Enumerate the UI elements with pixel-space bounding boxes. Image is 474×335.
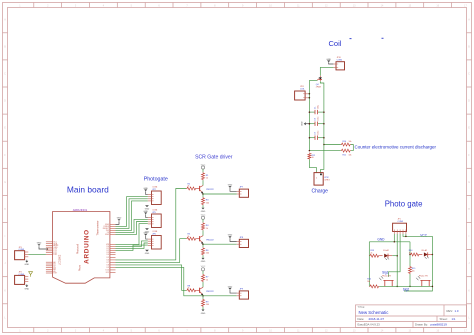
arduino right pin D11	[106, 272, 116, 274]
svg-text:1k: 1k	[409, 252, 411, 254]
arduino left pin D13	[46, 249, 57, 251]
wire gate	[309, 79, 317, 81]
svg-text:1/1: 1/1	[452, 317, 456, 321]
svg-text:C: C	[468, 73, 470, 76]
wire photogate 4	[116, 219, 148, 232]
svg-text:G: G	[468, 181, 470, 184]
svg-text:1k: 1k	[188, 236, 190, 238]
svg-text:100u: 100u	[317, 105, 319, 109]
svg-text:New Schematic: New Schematic	[359, 310, 390, 315]
svg-text:CHRG: CHRG	[324, 180, 330, 182]
ground (connector JP7)	[228, 185, 237, 192]
arduino right pin D4	[107, 254, 116, 256]
resistor R13 (led left)	[369, 250, 379, 257]
svg-text:Counter electromotive current: Counter electromotive current discharger	[355, 144, 437, 149]
node emitter junction	[202, 295, 204, 297]
wire emitter resistor to ground	[202, 255, 204, 258]
connector JP4 (left lower)	[15, 272, 29, 285]
wire vcc to collector resistor	[202, 219, 204, 222]
LED D1	[379, 249, 392, 260]
svg-text:Photo TR: Photo TR	[419, 275, 428, 278]
svg-text:Photo gate: Photo gate	[385, 199, 423, 208]
arduino left pin D11	[46, 252, 57, 254]
ground (capacitor ladder)	[302, 121, 311, 126]
arduino left pin A2	[46, 265, 56, 268]
ground (JP5 bottom)	[145, 228, 150, 233]
arduino right pin GND	[105, 234, 116, 236]
svg-text:CON5: CON5	[398, 221, 404, 223]
arduino left pin AREF	[46, 244, 59, 247]
phototransistor PT2	[416, 275, 430, 287]
wire discharge return	[309, 150, 340, 152]
resistor R1 (collector)	[202, 172, 210, 180]
resistor R14 (led right)	[409, 250, 420, 256]
resistor R10 (discharge)	[341, 141, 352, 146]
antenna symbol (JP4)	[29, 272, 33, 277]
svg-text:Date:: Date:	[358, 317, 365, 321]
svg-text:PN2222: PN2222	[206, 239, 214, 241]
connector JP7 (SCR output)	[237, 187, 249, 198]
wire pin4 vcc	[403, 234, 432, 255]
ground (JP2 top)	[143, 188, 148, 195]
svg-text:CON3: CON3	[19, 249, 25, 251]
connector JP10 (coil top)	[333, 57, 344, 70]
resistor R15 (mid pulldown)	[409, 266, 416, 274]
title block	[356, 305, 467, 328]
transistor Q3 PN2222	[196, 287, 214, 295]
svg-text:Drawn By:: Drawn By:	[415, 323, 428, 327]
ground (JP5 top)	[143, 211, 148, 218]
svg-text:H: H	[468, 208, 470, 211]
wire vcc to collector resistor	[202, 271, 204, 274]
svg-text:100: 100	[206, 253, 209, 255]
svg-text:PN2222: PN2222	[206, 291, 214, 293]
connector JP1 (photo gate header)	[393, 218, 407, 234]
wire collector resistor to transistor	[202, 180, 204, 185]
svg-text:D10: D10	[53, 254, 56, 256]
svg-text:10: 10	[312, 157, 314, 159]
svg-text:Photocell: Photocell	[77, 243, 80, 254]
node emitter junction	[202, 243, 204, 245]
svg-text:CON2: CON2	[337, 60, 343, 62]
svg-text:GND: GND	[302, 121, 304, 126]
resistor R3 (emitter)	[202, 197, 210, 205]
arduino right pin D7	[107, 262, 116, 264]
svg-text:Sheet:: Sheet:	[440, 317, 448, 321]
svg-text:Main board: Main board	[67, 185, 109, 195]
svg-text:Thermometer: Thermometer	[96, 220, 99, 235]
svg-text:ARDUINO: ARDUINO	[84, 229, 91, 264]
arduino left pin SCL	[46, 242, 57, 244]
wire vcc to collector resistor	[202, 169, 204, 172]
svg-text:10k: 10k	[349, 141, 352, 143]
svg-text:Photo TR: Photo TR	[382, 275, 391, 278]
svg-text:GND: GND	[117, 217, 122, 219]
svg-text:1.0: 1.0	[455, 309, 459, 313]
ground (stage 1 emitter)	[201, 208, 206, 213]
connector JP2 (photogate)	[148, 187, 161, 205]
svg-text:TITLE:: TITLE:	[358, 306, 366, 309]
resistor R12 (charge)	[308, 153, 315, 160]
vcc supply (stage 3)	[201, 266, 206, 271]
svg-text:GND: GND	[377, 237, 385, 241]
svg-text:H: H	[4, 208, 6, 211]
svg-text:GND: GND	[201, 313, 206, 315]
arduino left pin D12	[46, 251, 57, 253]
svg-text:Piezo: Piezo	[78, 264, 81, 271]
svg-text:1k: 1k	[206, 178, 208, 180]
svg-text:GND: GND	[105, 234, 110, 236]
svg-text:CON3: CON3	[19, 274, 25, 276]
connector JP6 (photogate)	[148, 231, 161, 249]
svg-text:GND: GND	[24, 264, 29, 266]
wire photogate 7	[116, 241, 148, 247]
resistor R16 (bottom left)	[367, 279, 379, 288]
wire emitter resistor to ground	[202, 307, 204, 310]
svg-text:D: D	[468, 100, 470, 103]
wire gnd top	[369, 241, 410, 243]
arduino right pin D9	[107, 267, 116, 269]
arduino left pin A5	[46, 270, 56, 273]
svg-text:EasyEDA V4.9.23: EasyEDA V4.9.23	[358, 323, 381, 327]
wire led left to pin2 net	[392, 255, 397, 257]
svg-text:LCD1602: LCD1602	[59, 254, 62, 265]
arduino right pin 3V3	[106, 230, 116, 232]
arduino left pin SDA	[46, 242, 58, 245]
svg-text:GND: GND	[201, 211, 206, 213]
wire photogate 3	[116, 201, 148, 231]
ground (coil top)	[326, 59, 333, 64]
svg-text:100u: 100u	[317, 131, 319, 135]
wire emitter node	[202, 243, 204, 247]
svg-text:C: C	[4, 73, 6, 76]
arduino left pin A3	[46, 266, 56, 269]
svg-text:1k: 1k	[371, 252, 373, 254]
wire mid rail lower	[409, 274, 411, 286]
svg-text:10k: 10k	[349, 155, 352, 157]
resistor R2 (base)	[186, 184, 196, 191]
ground (arduino right top)	[116, 217, 122, 224]
transistor Q2 PN2222	[196, 236, 214, 244]
svg-text:2018-11-07: 2018-11-07	[369, 317, 385, 321]
svg-text:VCC: VCC	[201, 164, 206, 166]
wire collector resistor to transistor	[202, 230, 204, 235]
connector JP9 (SCR output)	[237, 288, 249, 299]
svg-text:D: D	[4, 100, 6, 103]
svg-text:G: G	[4, 181, 6, 184]
vcc supply (stage 1)	[201, 164, 206, 169]
vcc supply (stage 2)	[201, 215, 206, 220]
svg-text:100: 100	[206, 304, 209, 306]
ground (JP3)	[24, 260, 29, 267]
svg-text:2P4M: 2P4M	[316, 87, 321, 89]
wire arduino to Q1 base	[116, 189, 187, 260]
net stub mark 1	[350, 37, 352, 40]
arduino left pin RST	[46, 273, 58, 275]
svg-text:ARDUINO1: ARDUINO1	[73, 208, 88, 212]
svg-text:1k: 1k	[188, 288, 190, 290]
ground (JP6 top)	[143, 232, 148, 239]
LED D2	[420, 249, 433, 259]
net stub mark 2	[382, 37, 384, 40]
arduino left pin A4	[46, 268, 56, 271]
ground (stage 3 emitter)	[201, 310, 206, 315]
node emitter junction	[202, 193, 204, 195]
arduino right pin RESET	[103, 228, 116, 230]
svg-text:D4: D4	[107, 254, 109, 256]
wire to charge connector right	[321, 145, 324, 173]
transistor Q1 PN2222	[196, 186, 214, 194]
wire photogate 2	[116, 199, 148, 229]
arduino left pin A1	[46, 263, 56, 266]
svg-text:VCC: VCC	[201, 215, 206, 217]
svg-text:GND: GND	[37, 242, 42, 244]
svg-text:Sig1: Sig1	[382, 270, 389, 274]
wire emitter node	[202, 295, 204, 299]
svg-text:IFL-A2: IFL-A2	[422, 249, 427, 252]
arduino right pin D8	[107, 265, 116, 267]
wire right rail down	[404, 255, 432, 292]
arduino right pin VIN	[106, 244, 116, 246]
arduino right pin D10	[106, 270, 116, 272]
ground (stage 2 emitter)	[201, 258, 206, 263]
capacitor C3	[309, 131, 325, 140]
svg-text:100u: 100u	[317, 117, 319, 121]
svg-text:1k: 1k	[188, 186, 190, 188]
svg-text:100: 100	[206, 202, 209, 204]
wire pin3 sig1	[389, 234, 401, 277]
svg-text:10k: 10k	[367, 281, 370, 283]
wire pin1 to gnd rail	[393, 234, 395, 242]
connector JP12 (charge)	[314, 173, 330, 186]
arduino left pin A0	[46, 261, 56, 264]
arduino right pin GND	[105, 224, 116, 226]
resistor R5 (base)	[186, 234, 196, 241]
wire discharge bend	[351, 145, 354, 151]
phototransistor PT1	[379, 275, 393, 287]
ground (arduino left)	[37, 242, 48, 249]
ground (JP2 bottom)	[145, 205, 150, 210]
resistor R6 (emitter)	[202, 247, 210, 255]
arduino right pin D5	[107, 257, 116, 259]
svg-text:pata980219: pata980219	[431, 323, 448, 327]
wire left rail	[308, 80, 310, 150]
ground (JP4)	[24, 284, 29, 290]
resistor R4 (collector)	[202, 222, 210, 230]
ground (JP6 bottom)	[145, 250, 150, 255]
wire pin2 long	[396, 234, 398, 286]
svg-text:GND: GND	[24, 289, 29, 291]
wire coil top	[320, 67, 333, 75]
wire emitter node	[202, 193, 204, 197]
connector JP11 (coil)	[295, 86, 308, 100]
svg-text:Charge: Charge	[312, 188, 329, 194]
wire collector resistor to transistor	[202, 282, 204, 287]
svg-text:1k: 1k	[206, 228, 208, 230]
connector JP3 (left)	[15, 247, 29, 260]
svg-text:IFL-A2: IFL-A2	[383, 249, 388, 252]
wire coil connector pin2	[308, 97, 309, 99]
svg-text:GND: GND	[201, 261, 206, 263]
wire arduino to Q2 base	[116, 239, 187, 263]
svg-text:Photogate: Photogate	[144, 177, 168, 183]
wire photogate 8	[116, 243, 148, 248]
wire emitter resistor to ground	[202, 205, 204, 208]
arduino left pin D10	[46, 254, 57, 256]
ground (connector JP9)	[228, 286, 237, 293]
svg-text:1k: 1k	[206, 279, 208, 281]
svg-text:REV:: REV:	[447, 309, 454, 313]
svg-text:SCR Gate driver: SCR Gate driver	[195, 154, 233, 160]
svg-text:10k: 10k	[412, 271, 415, 273]
wire to charge connector left	[309, 160, 316, 173]
wire discharge top	[324, 144, 341, 146]
arduino right pin D1	[107, 248, 116, 250]
wire photogate 9	[116, 245, 148, 250]
arduino right pin D2	[107, 250, 116, 252]
wire emitter to connector JP8	[203, 243, 237, 245]
arduino right pin D0	[107, 246, 116, 248]
wire mid rail	[409, 242, 411, 266]
svg-text:VCC: VCC	[420, 233, 427, 237]
wire photogate 1	[116, 197, 148, 227]
arduino right pin IOREF	[103, 226, 115, 228]
capacitor C2	[309, 117, 325, 126]
transistor Q4 (SCR)	[316, 76, 322, 89]
wire bottom rail	[379, 285, 432, 287]
wire emitter to connector JP7	[203, 193, 237, 195]
ground (connector JP8)	[228, 235, 237, 242]
resistor R9 (emitter)	[202, 299, 210, 307]
svg-text:PN2222: PN2222	[206, 189, 214, 191]
svg-text:Coil: Coil	[329, 39, 342, 48]
connector JP8 (SCR output)	[237, 237, 249, 248]
svg-text:Sig2: Sig2	[403, 287, 410, 291]
connector JP5 (photogate)	[148, 210, 161, 228]
arduino left pin GND	[46, 247, 58, 249]
svg-text:VCC: VCC	[201, 266, 206, 268]
arduino right pin D3	[107, 252, 116, 254]
svg-text:D11: D11	[106, 272, 109, 274]
arduino right pin 5V	[107, 232, 116, 234]
wire emitter to connector JP9	[116, 267, 237, 295]
wire JP3 to arduino	[28, 253, 46, 255]
wire arduino to Q3 base	[116, 265, 187, 290]
wire left rail (photo gate)	[368, 242, 370, 287]
resistor R7 (collector)	[202, 274, 210, 282]
resistor R11 (discharge)	[341, 149, 352, 157]
wire scr to right rail	[320, 81, 324, 144]
wire photogate 6	[116, 224, 148, 245]
arduino board U1 outline	[53, 212, 110, 284]
wire photogate 5	[116, 222, 148, 235]
resistor R8 (base)	[186, 285, 196, 292]
capacitor C1	[309, 105, 325, 114]
arduino right pin D6	[107, 260, 116, 262]
wire coil connector pin1	[308, 93, 309, 95]
wire pin5 stub	[405, 234, 407, 236]
svg-text:GND: GND	[145, 253, 150, 255]
